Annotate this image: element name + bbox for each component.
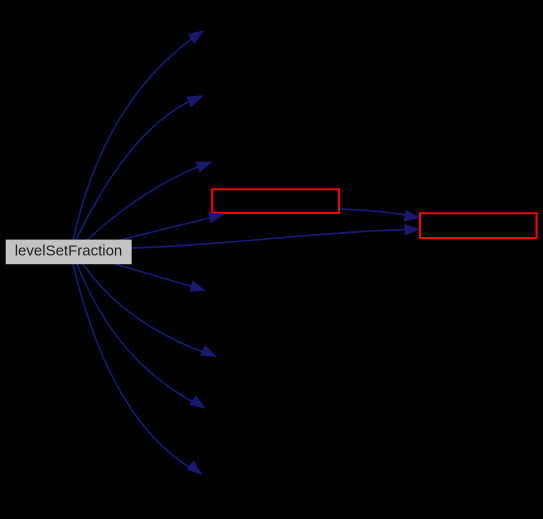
edge 4 to red node N2 xyxy=(120,213,224,240)
edge 2 xyxy=(76,96,202,240)
edge 5 to red node N3 xyxy=(132,225,419,248)
edge 9 to bottom node xyxy=(73,264,201,474)
edge 3 xyxy=(87,162,211,240)
edge 1 to top node xyxy=(73,31,203,240)
node N3 (red bordered box, hidden label) xyxy=(420,213,537,238)
edge 6 xyxy=(115,264,205,291)
node N2 (red bordered box, hidden label) xyxy=(212,189,339,213)
edge N2 to N3 xyxy=(340,209,419,221)
edge 7 xyxy=(83,264,216,357)
edge 8 xyxy=(77,264,205,408)
node levelSetFraction (current node, grey filled box) xyxy=(6,240,132,265)
svg-text:levelSetFraction: levelSetFraction xyxy=(15,242,123,259)
